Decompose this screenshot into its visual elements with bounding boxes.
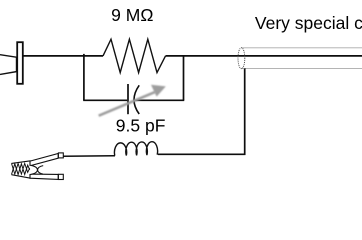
alligator clip upper arm <box>30 154 58 166</box>
variable capacitor arrowhead <box>151 85 166 97</box>
inductor L1 ground lead coil <box>114 142 157 156</box>
node A left junction vertical wire <box>83 54 85 101</box>
alligator clip lower jaw outline <box>12 175 31 179</box>
alligator clip lower teeth zigzag <box>12 164 30 175</box>
coax cable bottom dotted outline <box>242 68 362 70</box>
wire node A to capacitor <box>83 99 127 101</box>
right junction vertical wire <box>183 55 185 100</box>
wire node A to resistor <box>84 55 103 57</box>
probe tip cone <box>0 55 17 75</box>
svg-text:9.5 pF: 9.5 pF <box>116 116 166 136</box>
variable capacitor arrow shaft <box>99 92 156 116</box>
wire resistor to cable <box>166 55 362 57</box>
probe flange <box>17 42 23 84</box>
alligator clip lower arm <box>30 174 58 179</box>
alligator clip lower terminal <box>58 174 63 179</box>
wire probe to node A <box>24 55 85 57</box>
svg-text:Very special cable: Very special cable <box>255 13 362 33</box>
coax cable end ellipse <box>238 48 245 69</box>
wire capacitor to right junction <box>135 99 184 101</box>
alligator clip spring left arc <box>30 165 38 174</box>
alligator clip upper terminal <box>58 153 63 158</box>
capacitor C1 left plate <box>127 84 129 114</box>
svg-text:9 MΩ: 9 MΩ <box>111 5 153 25</box>
coax cable top dotted outline <box>242 47 362 49</box>
alligator clip spring right arc <box>38 166 44 175</box>
alligator clip upper jaw outline <box>12 161 31 164</box>
resistor R1 9 MOhm zigzag <box>103 39 166 72</box>
bottom ground wire right segment <box>158 153 245 155</box>
alligator clip upper teeth zigzag <box>12 163 30 174</box>
shield ground drop wire <box>244 68 246 155</box>
wire clip to inductor <box>63 155 115 157</box>
capacitor C1 right curved plate <box>134 85 139 114</box>
